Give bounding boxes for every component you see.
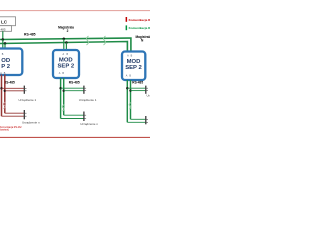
svg-text:Urządzenie n: Urządzenie n xyxy=(80,122,98,126)
wire: module3 device n line A (turn) xyxy=(127,121,145,123)
node: module2 device1 tap B xyxy=(63,90,65,92)
svg-text:RS-485: RS-485 xyxy=(132,81,143,85)
node: module1 device1 tap B xyxy=(4,90,6,92)
wire: bus to module2 pin B xyxy=(65,43,67,51)
svg-text:SEP 2: SEP 2 xyxy=(58,64,75,70)
wire: RS-485 bus line A (upper) xyxy=(0,38,131,53)
wire: module3 device n line B (turn) xyxy=(131,118,146,120)
svg-text:Urządzenie 1: Urządzenie 1 xyxy=(19,98,37,102)
break mark on module3 drop xyxy=(129,103,131,110)
PLC RS-485 port box xyxy=(0,26,12,32)
connector: module2 device 1 xyxy=(83,86,85,94)
bottom page border line xyxy=(0,136,150,138)
wire: module1 device1 line B xyxy=(5,90,24,92)
wire: module3 device1 line A xyxy=(127,87,145,89)
break mark on bus 1 xyxy=(86,36,88,45)
top page border line xyxy=(0,10,150,12)
svg-text:Urządzenie n: Urządzenie n xyxy=(22,120,40,124)
wire: bus to module2 pin A xyxy=(63,39,65,51)
module U2 MOD SEP 2 (middle) xyxy=(53,50,79,78)
node: module2 tap A xyxy=(63,38,66,41)
svg-text:RS-485: RS-485 xyxy=(4,80,15,84)
svg-text:Komunikacja R: Komunikacja R xyxy=(129,18,150,22)
node: module2 tap B xyxy=(65,41,68,44)
wire: module3 drop B (green) xyxy=(130,80,132,119)
connector: module3 device n xyxy=(145,116,147,124)
svg-text:Urządzenie 1: Urządzenie 1 xyxy=(79,98,97,102)
module U3 MOD SEP 2 (right) xyxy=(122,52,145,81)
module U1 MOD SEP 2 (left, clipped) xyxy=(0,49,22,76)
node: module1 tap B xyxy=(4,42,7,45)
legend: green communication sample xyxy=(126,25,128,30)
break mark on module2 drop xyxy=(62,105,64,112)
wire: module2 device1 line B xyxy=(64,90,84,92)
PLC box xyxy=(0,17,16,26)
svg-text:2: 2 xyxy=(67,29,69,33)
wire: module3 drop A (green) xyxy=(126,80,128,122)
wire: module2 drop B (green) xyxy=(63,78,65,115)
svg-text:RS-485: RS-485 xyxy=(69,80,80,84)
connector: module3 device 1 xyxy=(145,86,147,94)
node: module3 device1 tap A xyxy=(126,87,128,89)
wire: module3 device1 line B xyxy=(131,90,146,92)
wire: module1 device n line A (turn) xyxy=(2,115,24,117)
svg-text:Komunikacja R: Komunikacja R xyxy=(129,26,150,30)
wire: module2 drop A (green) xyxy=(60,78,62,119)
svg-text:LC: LC xyxy=(1,19,8,24)
svg-text:P 2: P 2 xyxy=(1,64,10,70)
node: module1 device1 tap A xyxy=(0,87,2,89)
wire: PLC to bus xyxy=(2,31,4,39)
break mark on module1 drop xyxy=(3,102,5,109)
svg-text:Komunikacja RS-232: Komunikacja RS-232 xyxy=(0,127,22,129)
wire: bus to module1 pin B xyxy=(4,43,6,49)
wire: module2 device1 line A xyxy=(61,87,84,89)
wire: bus to module1 pin A xyxy=(2,40,4,50)
legend: red communication sample xyxy=(126,17,128,22)
wire: RS-485 bus line B (lower) xyxy=(0,42,127,53)
wire: module1 drop B (red) xyxy=(4,75,6,114)
node: module3 device1 tap B xyxy=(129,89,131,91)
wire: module1 device1 line A xyxy=(2,87,24,89)
svg-text:485: 485 xyxy=(1,27,6,31)
connector: module1 device 1 xyxy=(23,86,25,94)
svg-text:(wariant): (wariant) xyxy=(0,129,9,132)
wire: module1 drop A (red) xyxy=(1,75,3,117)
wire: module1 device n line B (turn) xyxy=(5,112,24,114)
svg-text:RS-485: RS-485 xyxy=(24,33,36,37)
connector: module1 device n xyxy=(23,110,25,119)
svg-text:Urz: Urz xyxy=(147,94,151,98)
break mark on bus 2 xyxy=(103,36,105,45)
node: module2 device1 tap A xyxy=(59,87,61,89)
node: module1 tap A xyxy=(2,38,5,41)
svg-text:SEP 2: SEP 2 xyxy=(125,65,142,71)
wire: module2 device n line A (turn) xyxy=(61,118,84,120)
connector: module2 device n xyxy=(83,112,85,122)
wire: module2 device n line B (turn) xyxy=(64,114,84,116)
